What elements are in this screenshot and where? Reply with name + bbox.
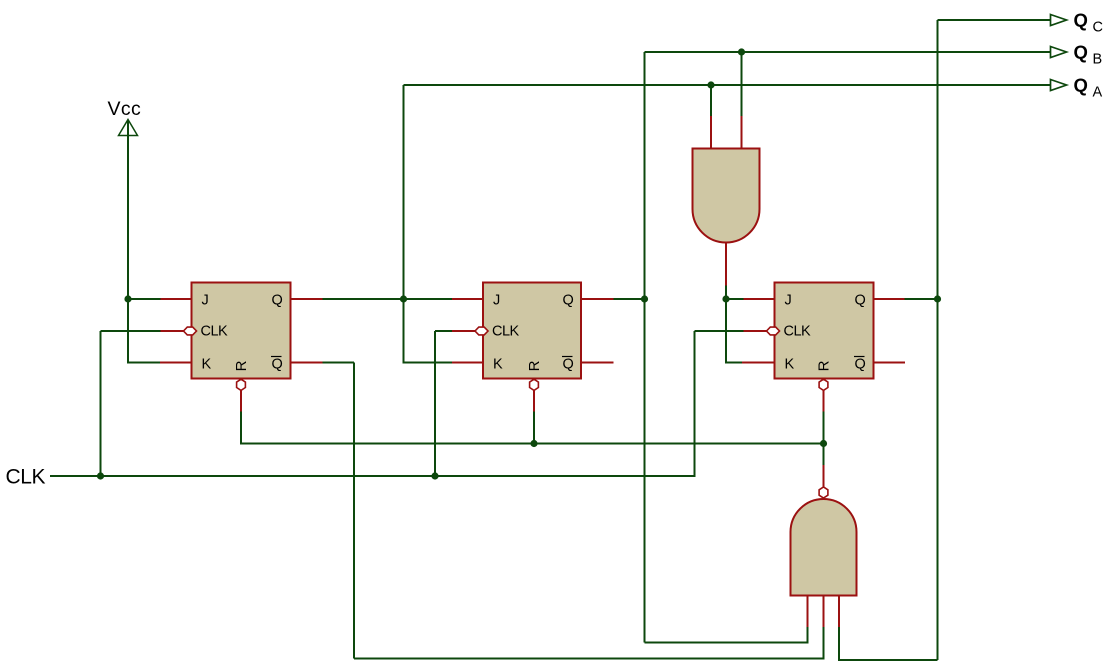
pin J of U3 — [744, 298, 775, 300]
wire net Q1bar: FF1 Qbar to corner y=362.5 — [323, 362, 355, 364]
wire net Q1bar bottom horizontal y=658.5 — [354, 658, 824, 660]
wire Vcc to K1 input, y=362.5 — [127, 362, 160, 364]
wire CLK riser to FF3 x=694.5 — [694, 331, 696, 477]
wire CLK feed to FF2 bubble y=331 — [435, 330, 452, 332]
JK flip-flop U1 body — [192, 283, 291, 379]
pin input-left of NAND U5 — [807, 596, 809, 628]
wire FF2 R pin drop x=534 green part — [533, 412, 535, 444]
U1 R inversion bubble — [237, 379, 246, 390]
AND gate U4 body — [693, 149, 760, 243]
wire net QC top horizontal y=20 to terminal — [938, 19, 1051, 21]
wire AND right input drop x=741.5 — [741, 52, 743, 117]
U1 Qbar overline — [271, 356, 282, 358]
node CLK to FF2 junction — [431, 472, 438, 479]
wire net QB: FF2 Q to junction y=299 — [614, 298, 645, 300]
pin Qbar of U2 (unconnected stub) — [581, 362, 614, 364]
pin K of U1 — [160, 362, 192, 364]
svg-text:J: J — [202, 293, 209, 309]
wire AND output net vertical x=726 green part — [725, 286, 727, 364]
node QB to AND input junction y=52 — [738, 48, 745, 55]
wire AND output to J3 input y=299 — [726, 298, 744, 300]
svg-text:K: K — [493, 357, 503, 373]
wire Vcc to J1 input, y=299 — [127, 298, 161, 300]
wire FF1 R pin drop x=241 green part — [240, 412, 242, 445]
svg-text:J: J — [785, 293, 792, 309]
pin Q of U3 — [874, 298, 905, 300]
wire CLK main horizontal y=476 — [50, 475, 695, 477]
svg-text:CLK: CLK — [201, 324, 229, 340]
pin R of U3 — [823, 389, 825, 412]
wire net QB bottom horizontal y=642.5 to NAND input — [645, 642, 808, 644]
wire net QC: FF3 Q to junction y=299 — [905, 298, 938, 300]
node QA junction at FF1 Q — [400, 295, 407, 302]
U1 CLK inversion bubble — [184, 327, 197, 335]
wire FF3 R pin drop x=823.5 green part — [823, 412, 825, 444]
wire net QB riser x=644.5 from y=52 down to y=642.5 — [644, 52, 646, 643]
svg-text:Q: Q — [1074, 75, 1088, 96]
wire NAND left input rise x=807.5 — [807, 627, 809, 644]
wire NAND middle input rise x=823.5 — [823, 627, 825, 660]
pin J of U1 — [161, 298, 192, 300]
pin K of U2 — [452, 362, 483, 364]
svg-text:C: C — [1093, 20, 1103, 36]
svg-text:Q: Q — [855, 293, 866, 309]
svg-text:K: K — [785, 357, 795, 373]
wire CLK feed to FF3 bubble y=331 — [695, 330, 744, 332]
U3 Qbar overline — [854, 356, 865, 358]
pin output of AND U4 — [725, 243, 727, 286]
pin CLK of U1 — [161, 330, 185, 332]
wire NAND output rise x=823.5 green part — [823, 444, 825, 466]
svg-text:Vcc: Vcc — [108, 98, 142, 120]
wire net QA: FF1 Q to junction y=299 — [323, 298, 404, 300]
U2 R inversion bubble — [530, 379, 539, 390]
svg-text:Q: Q — [1074, 10, 1088, 31]
wire net QA to K2 input y=362.5 — [404, 362, 453, 364]
node CLK to FF1 junction — [97, 472, 104, 479]
svg-text:K: K — [202, 357, 212, 373]
node reset bus FF2 junction — [530, 440, 537, 447]
svg-text:R: R — [233, 360, 250, 371]
svg-text:Q: Q — [855, 357, 866, 373]
terminal QC triangle — [1051, 15, 1067, 26]
svg-text:R: R — [816, 360, 833, 371]
wire CLK riser to FF2 x=435 — [434, 331, 436, 476]
pin output of NAND U5 — [823, 465, 825, 488]
U3 R inversion bubble — [819, 379, 828, 390]
wire net QA riser x=403.5 from y=85 down to K row of FF2 — [403, 85, 405, 364]
svg-text:R: R — [526, 360, 543, 371]
svg-text:Q: Q — [563, 357, 574, 373]
pin K of U3 — [742, 362, 775, 364]
pin CLK of U3 — [744, 330, 768, 332]
U2 CLK inversion bubble — [475, 327, 488, 335]
terminal QB triangle — [1051, 47, 1067, 58]
pin input-right of AND U4 — [741, 116, 743, 149]
node QB junction at FF2 Q — [641, 295, 648, 302]
wire net Q1bar vertical x=354 — [353, 363, 355, 659]
wire NAND right input rise x=839 — [838, 627, 840, 661]
U2 Qbar overline — [562, 356, 573, 358]
pin input-left of AND U4 — [710, 116, 712, 149]
NAND U5 output inversion bubble — [819, 487, 828, 498]
wire AND output to K3 input y=362.5 — [726, 362, 742, 364]
node QA to AND input junction y=85 — [707, 81, 714, 88]
wire net QA top horizontal y=85 to terminal — [404, 84, 1051, 86]
U3 CLK inversion bubble — [767, 327, 780, 335]
pin R of U1 — [240, 389, 242, 412]
wire AND left input drop x=711 — [710, 85, 712, 117]
svg-text:Q: Q — [563, 293, 574, 309]
wire CLK feed to FF1 bubble y=331 — [101, 330, 161, 332]
wire net QB top horizontal y=52 to terminal — [645, 51, 1051, 53]
pin CLK of U2 — [452, 330, 476, 332]
pin input-middle of NAND U5 — [823, 596, 825, 628]
svg-text:A: A — [1093, 85, 1103, 101]
pin J of U2 — [452, 298, 483, 300]
wire net QC riser x=937.5 from y=20 down to y=660 — [937, 20, 939, 660]
node QC junction at FF3 Q — [934, 295, 941, 302]
NAND gate U5 body — [791, 499, 857, 596]
svg-text:CLK: CLK — [784, 324, 812, 340]
pin Qbar of U1 — [291, 362, 323, 364]
svg-text:Q: Q — [272, 357, 283, 373]
wire Vcc vertical x=128 from power symbol down to K row — [127, 120, 129, 364]
wire CLK riser to FF1 x=100.5 — [100, 331, 102, 476]
node AND output to J3 junction — [722, 295, 729, 302]
svg-text:Q: Q — [1074, 42, 1088, 63]
svg-text:CLK: CLK — [6, 466, 46, 489]
svg-text:CLK: CLK — [492, 324, 520, 340]
pin Q of U1 — [291, 298, 323, 300]
svg-text:B: B — [1093, 52, 1103, 68]
wire reset bus horizontal y=443.5 — [241, 443, 824, 445]
node Vcc-J1 junction — [124, 295, 131, 302]
JK flip-flop U3 body — [775, 283, 874, 379]
svg-text:J: J — [493, 293, 500, 309]
svg-text:Q: Q — [272, 293, 283, 309]
wire net QC bottom horizontal y=660 to NAND input — [839, 659, 938, 661]
node reset bus FF3/NAND junction — [820, 440, 827, 447]
terminal QA triangle — [1051, 80, 1067, 91]
pin Q of U2 — [581, 298, 614, 300]
wire net QA to J2 input y=299 — [404, 298, 453, 300]
pin R of U2 — [533, 389, 535, 412]
power symbol Vcc triangle — [119, 120, 138, 136]
pin input-right of NAND U5 — [838, 596, 840, 628]
pin Qbar of U3 (unconnected stub) — [874, 362, 906, 364]
JK flip-flop U2 body — [483, 283, 581, 379]
